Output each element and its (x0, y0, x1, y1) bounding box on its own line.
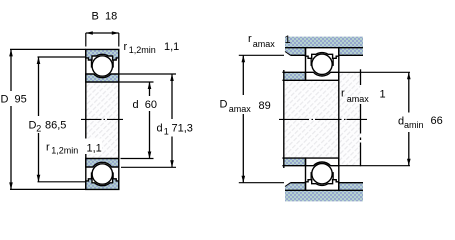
svg-text:D: D (220, 99, 228, 111)
svg-text:amax: amax (347, 94, 370, 104)
svg-text:D: D (29, 120, 37, 132)
svg-text:71,3: 71,3 (172, 123, 193, 135)
svg-text:1: 1 (380, 89, 386, 101)
svg-text:1,2min: 1,2min (51, 146, 78, 156)
svg-text:amax: amax (229, 104, 252, 114)
svg-text:66: 66 (431, 115, 443, 127)
svg-text:r: r (124, 41, 128, 53)
svg-text:B 18: B 18 (92, 11, 118, 23)
svg-text:d 60: d 60 (133, 99, 157, 111)
svg-text:amax: amax (253, 39, 276, 49)
svg-text:2: 2 (36, 123, 41, 133)
svg-text:r: r (341, 88, 345, 100)
svg-text:r: r (46, 142, 50, 154)
svg-text:1,1: 1,1 (87, 142, 102, 154)
svg-text:1,1: 1,1 (164, 41, 179, 53)
svg-text:d: d (157, 123, 163, 135)
svg-text:89: 89 (259, 100, 271, 112)
svg-text:r: r (248, 33, 252, 45)
svg-text:1: 1 (285, 34, 291, 46)
svg-text:D 95: D 95 (1, 93, 27, 105)
svg-text:86,5: 86,5 (45, 120, 66, 132)
svg-text:1: 1 (164, 126, 169, 136)
svg-text:1,2min: 1,2min (129, 45, 156, 55)
svg-text:amin: amin (404, 120, 424, 130)
